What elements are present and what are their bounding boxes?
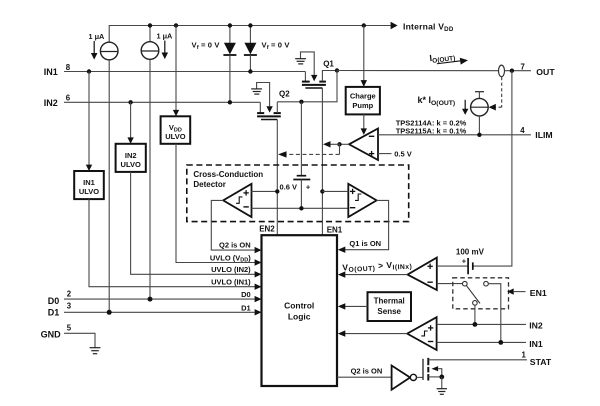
wire IN1 rail bbox=[64, 71, 305, 73]
battery 0.6V bbox=[280, 102, 311, 209]
wire STAT row bbox=[428, 359, 527, 361]
inverter buffer bbox=[392, 366, 411, 390]
wire Q2 is ON output to inverter bbox=[337, 376, 392, 378]
svg-text:+: + bbox=[306, 182, 311, 191]
current sensor ellipse on OUT bbox=[499, 65, 505, 77]
block charge pump bbox=[346, 87, 380, 115]
node IN1/ULVO junction bbox=[87, 69, 91, 73]
node IN2/D1 junction bbox=[228, 100, 232, 104]
block control logic bbox=[262, 235, 338, 386]
op-amp U1 0.5V comparator bbox=[349, 129, 378, 161]
op-amp U3 cross-conduction right comparator bbox=[348, 184, 376, 217]
svg-text:Sense: Sense bbox=[377, 307, 401, 316]
arrow Internal VDD bbox=[391, 22, 398, 29]
node IN1/D2 junction bbox=[248, 69, 252, 73]
svg-text:ILIM: ILIM bbox=[535, 130, 552, 140]
wire Q1 gate down (EN1 line) bbox=[321, 88, 323, 235]
node rail/D1 junction bbox=[228, 23, 232, 27]
svg-text:1 μA: 1 μA bbox=[89, 32, 106, 41]
current source k*IO(OUT) bbox=[418, 92, 489, 135]
node EN1 tap bbox=[320, 189, 324, 193]
wire Q2 gate down (EN2 line) bbox=[276, 120, 278, 236]
svg-text:TPS2115A: k = 0.1%: TPS2115A: k = 0.1% bbox=[396, 126, 467, 135]
svg-text:0.6 V: 0.6 V bbox=[280, 182, 298, 191]
svg-text:UVLO (IN2): UVLO (IN2) bbox=[211, 265, 251, 274]
wire IN1 ULVO to control logic UVLO(IN1) bbox=[89, 199, 255, 287]
node battery minus tap bbox=[299, 206, 303, 210]
dashed box cross-conduction detector bbox=[187, 165, 409, 222]
svg-text:1 μA: 1 μA bbox=[157, 32, 174, 41]
wire IN1 to IN1 ULVO bbox=[88, 72, 90, 166]
node IN2/ULVO junction bbox=[128, 100, 132, 104]
svg-text:6: 6 bbox=[66, 93, 71, 102]
ground at Q1 body bbox=[295, 58, 306, 60]
wire VDD ULVO to control logic UVLO(VDD) bbox=[176, 144, 255, 263]
svg-text:UVLO (IN1): UVLO (IN1) bbox=[211, 278, 251, 287]
svg-text:2: 2 bbox=[67, 290, 72, 299]
transistor Q2 bbox=[251, 83, 290, 120]
svg-text:ULVO: ULVO bbox=[79, 187, 99, 196]
svg-text:Q2: Q2 bbox=[279, 90, 290, 99]
wire OUT dropper to 100mV battery bbox=[473, 71, 512, 266]
svg-text:Detector: Detector bbox=[193, 180, 225, 189]
svg-text:D0: D0 bbox=[241, 290, 251, 299]
current source I1 1uA bbox=[89, 32, 119, 312]
svg-text:100 mV: 100 mV bbox=[456, 248, 485, 257]
node battery tap on Q2 drain row bbox=[299, 100, 303, 104]
svg-text:3: 3 bbox=[67, 301, 72, 310]
wire internal VDD top rail bbox=[109, 26, 390, 43]
wire IN2 to IN2 ULVO bbox=[130, 102, 132, 138]
svg-text:IN2: IN2 bbox=[44, 98, 58, 108]
node OUT bbox=[510, 69, 514, 73]
svg-text:Vf = 0 V: Vf = 0 V bbox=[192, 40, 221, 51]
svg-text:IN2: IN2 bbox=[529, 321, 543, 331]
battery 100mV bbox=[456, 248, 485, 275]
node rail/VDD-ULVO junction bbox=[174, 23, 178, 27]
svg-text:4: 4 bbox=[520, 126, 525, 135]
svg-text:D0: D0 bbox=[48, 296, 60, 306]
svg-text:0.5 V: 0.5 V bbox=[394, 150, 412, 159]
ground GND symbol bbox=[90, 347, 101, 349]
node Q1 drain to OUT bbox=[335, 68, 339, 72]
wire IN1 row bbox=[437, 341, 526, 343]
svg-text:Pump: Pump bbox=[352, 101, 373, 110]
wire U1 output node bbox=[340, 143, 350, 145]
svg-text:Q1 is ON: Q1 is ON bbox=[349, 239, 381, 248]
svg-text:D1: D1 bbox=[241, 303, 251, 312]
wire IN2 row bbox=[437, 323, 526, 325]
wire U2 output to control logic Q2-is-ON input bbox=[211, 200, 255, 250]
transistor Q1 bbox=[295, 52, 337, 88]
wire U4 plus row to battery bbox=[437, 265, 468, 267]
wire IN2 ULVO to control logic UVLO(IN2) bbox=[131, 172, 255, 274]
node rail/D2 junction bbox=[248, 23, 252, 27]
svg-text:EN1: EN1 bbox=[530, 288, 547, 298]
ground at Q2 body bbox=[251, 88, 262, 90]
current source I2 1uA bbox=[141, 26, 173, 300]
block IN2 ULVO bbox=[116, 144, 146, 172]
svg-text:Q2 is ON: Q2 is ON bbox=[351, 366, 383, 375]
block VDD ULVO bbox=[161, 116, 191, 144]
wire IN2 rail bbox=[64, 101, 260, 103]
svg-text:IN1: IN1 bbox=[83, 178, 95, 187]
op-amp U5 IN2/IN1 comparator bbox=[407, 317, 436, 350]
wire U3 output to control logic Q1-is-ON input bbox=[345, 200, 389, 249]
node rail/charge-pump junction bbox=[362, 23, 366, 27]
op-amp U4 VO(OUT)>VI(INx) comparator bbox=[408, 258, 437, 290]
svg-text:STAT: STAT bbox=[530, 357, 552, 367]
svg-text:8: 8 bbox=[66, 63, 71, 72]
node ILIM junction bbox=[477, 133, 481, 137]
wire thermal sense to control logic bbox=[345, 305, 368, 307]
node rail/I2 junction bbox=[148, 23, 152, 27]
svg-text:D1: D1 bbox=[48, 307, 60, 317]
svg-text:IN2: IN2 bbox=[125, 151, 137, 160]
svg-text:Cross-Conduction: Cross-Conduction bbox=[193, 170, 263, 179]
wire right contact to IN1 row bbox=[488, 284, 501, 343]
wire U2 plus row to EN2 node bbox=[252, 190, 278, 192]
svg-text:5: 5 bbox=[67, 323, 72, 332]
wire U1 output arrow to Q1 gate line bbox=[331, 143, 340, 145]
wire U1 plus stub bbox=[378, 153, 392, 155]
wire dashed sense from ellipse to current source bbox=[501, 77, 503, 107]
wire OUT row bbox=[337, 70, 499, 72]
block IN1 ULVO bbox=[74, 171, 104, 199]
diode D2 Vf=0V bbox=[244, 26, 290, 72]
svg-text:GND: GND bbox=[41, 329, 62, 339]
svg-text:IN1: IN1 bbox=[529, 339, 543, 349]
pin EN1 arrow into switch bbox=[507, 288, 514, 294]
ground at Q3 source bbox=[437, 388, 447, 390]
svg-text:Q2 is ON: Q2 is ON bbox=[219, 240, 251, 249]
svg-text:Charge: Charge bbox=[350, 91, 376, 100]
switch blade bbox=[467, 286, 481, 304]
diode D1 Vf=0V bbox=[192, 26, 237, 103]
label VO(OUT) > VI(INx) bbox=[342, 259, 412, 274]
wire charge pump to comparator U1 bbox=[363, 114, 365, 129]
wire U4 output to control logic bbox=[345, 274, 408, 276]
wire minus row across battery bottom bbox=[252, 207, 349, 209]
svg-text:Thermal: Thermal bbox=[374, 296, 405, 305]
svg-text:Vf = 0 V: Vf = 0 V bbox=[262, 41, 291, 52]
wire lower contact to IN2 row bbox=[474, 305, 476, 324]
svg-text:Control: Control bbox=[284, 300, 314, 310]
svg-text:7: 7 bbox=[521, 63, 525, 72]
block thermal sense bbox=[368, 292, 412, 321]
svg-text:ULVO: ULVO bbox=[121, 160, 141, 169]
wire U5 output to control logic bbox=[345, 333, 407, 335]
svg-text:ULVO: ULVO bbox=[165, 132, 185, 141]
wire U3 plus row bbox=[322, 190, 348, 192]
wire top rail to VDD ULVO bbox=[175, 26, 177, 111]
node EN2 tap bbox=[275, 189, 279, 193]
svg-text:Q1: Q1 bbox=[323, 60, 334, 69]
svg-text:+: + bbox=[462, 256, 467, 265]
svg-text:EN2: EN2 bbox=[259, 225, 275, 234]
wire ILIM row from U1 minus input bbox=[378, 134, 531, 136]
wire Q1 drain down to Q2 drain row bbox=[277, 71, 337, 102]
switch S1 contacts bbox=[463, 281, 468, 286]
svg-text:Logic: Logic bbox=[288, 311, 311, 321]
wire U4 minus row to switch bbox=[437, 283, 463, 285]
op-amp U2 cross-conduction left comparator bbox=[223, 184, 251, 217]
svg-text:IN1: IN1 bbox=[44, 67, 58, 77]
wire top rail to charge pump bbox=[363, 26, 365, 81]
svg-text:OUT: OUT bbox=[536, 67, 555, 77]
svg-text:EN1: EN1 bbox=[327, 225, 343, 234]
svg-text:1: 1 bbox=[522, 350, 527, 359]
wire U1 output dashed arrow to Q2 gate line bbox=[339, 144, 341, 154]
transistor Q3 STAT open-drain bbox=[417, 358, 448, 394]
dashed box switch network bbox=[453, 278, 509, 309]
label IO(OUT) with arrow bbox=[429, 49, 469, 69]
